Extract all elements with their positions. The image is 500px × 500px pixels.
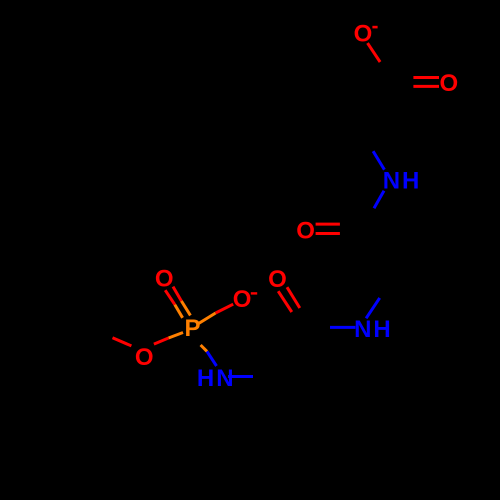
bond P-N10 (orange half) — [201, 345, 207, 351]
bond P=O7 line 1 orange half — [175, 305, 183, 318]
svg-text:O: O — [135, 344, 154, 371]
bond C2-N3 (blue half) — [373, 151, 384, 170]
bond P-O9 (orange half) — [169, 333, 184, 339]
svg-text:O: O — [155, 266, 174, 293]
bond P-O6 (red half) — [216, 304, 234, 313]
svg-text:NH: NH — [383, 168, 422, 195]
bond O9-CH3 (red half) — [113, 338, 132, 346]
bond C4=O4 double bond line 1 — [316, 223, 340, 226]
bond O1-C1 (red half) — [368, 43, 381, 62]
bond C1=O2 double bond line 2 — [413, 85, 439, 88]
bond C1=O2 double bond line 1 — [413, 76, 439, 79]
bond C6=O5 double bond line 1 — [278, 291, 292, 312]
atom O1 carboxylate O- label — [354, 21, 378, 48]
svg-text:O: O — [296, 217, 315, 244]
svg-text:NH: NH — [354, 316, 393, 343]
bond C6=O5 double bond line 2 — [287, 287, 300, 308]
bond P=O7 line 2 red half — [173, 287, 181, 301]
atom O6 phosphate O- label — [233, 286, 258, 313]
svg-text:O: O — [440, 70, 459, 97]
bond N3-C4 (blue half) — [374, 191, 384, 209]
svg-text:HN: HN — [197, 365, 236, 392]
bond P=O7 line 1 red half — [165, 290, 175, 304]
bond P=O7 line 2 orange half — [181, 301, 190, 315]
bond N11-C5 alpha (blue half) — [366, 298, 380, 318]
bond N10-C7 (blue half) — [228, 375, 253, 378]
bond P-O6 (orange half) — [199, 313, 216, 323]
svg-text:O: O — [233, 286, 252, 313]
bond P-O9 (red half) — [154, 338, 169, 344]
svg-text:P: P — [185, 315, 201, 342]
svg-text:O: O — [268, 266, 287, 293]
bond C4=O4 double bond line 2 — [316, 232, 340, 235]
bond P-N10 (blue half) — [207, 351, 217, 366]
bond N11-C6 amide2 (blue half) — [330, 326, 355, 329]
